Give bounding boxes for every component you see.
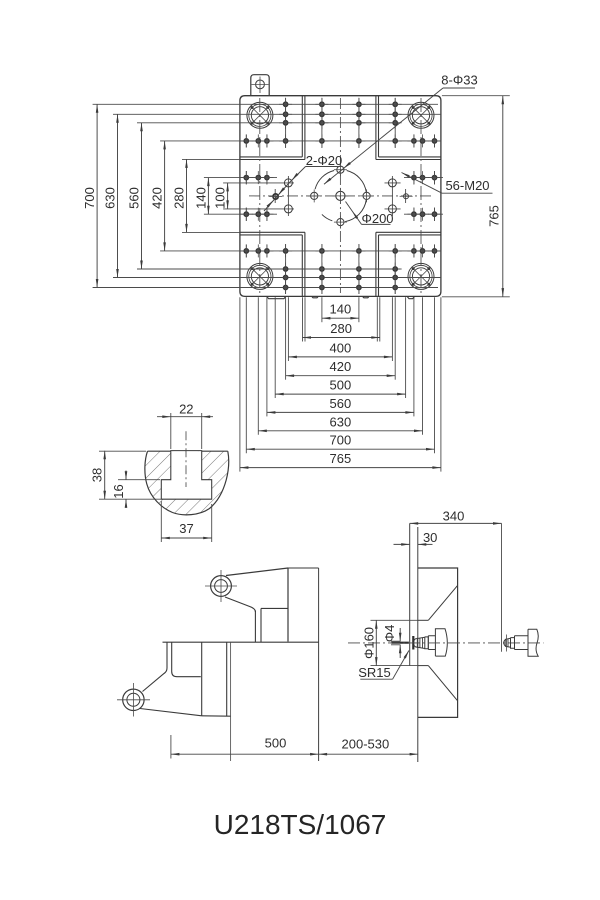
- svg-text:280: 280: [171, 187, 186, 209]
- dim 700 vertical: [96, 104, 98, 287]
- dim 500: [275, 393, 405, 395]
- dim 140: [322, 317, 359, 319]
- dim phi160: [371, 619, 418, 621]
- column lines: [245, 135, 247, 148]
- svg-text:2-Φ20: 2-Φ20: [306, 153, 342, 168]
- svg-text:340: 340: [443, 508, 465, 523]
- column centerline G-left: [259, 98, 261, 293]
- svg-text:280: 280: [330, 321, 352, 336]
- dim 420: [286, 375, 396, 377]
- side view centerline: [348, 642, 544, 644]
- dim 16: [118, 479, 160, 481]
- svg-text:30: 30: [423, 530, 437, 545]
- corner block top-right: [379, 156, 441, 158]
- bottom edge tabs: [267, 296, 286, 298]
- svg-text:765: 765: [487, 205, 502, 227]
- svg-text:56-M20: 56-M20: [445, 178, 489, 193]
- dim 560: [267, 411, 414, 413]
- svg-text:U218TS/1067: U218TS/1067: [214, 809, 387, 840]
- dim 630: [258, 430, 422, 432]
- svg-text:Φ200: Φ200: [361, 211, 393, 226]
- corner block bottom-left: [240, 234, 302, 236]
- dim 420 vertical: [164, 141, 166, 251]
- dim 38: [99, 450, 146, 452]
- dim 200-530: [319, 753, 419, 755]
- tie-bar hole bottom-left: [247, 263, 273, 289]
- horizontal centerline: [249, 195, 432, 197]
- dim 630 vertical: [117, 114, 119, 277]
- dim 765 right: [442, 95, 510, 97]
- dim 560 vertical: [141, 123, 143, 269]
- dim 140 vertical: [207, 178, 209, 215]
- svg-text:630: 630: [330, 414, 352, 429]
- svg-text:Φ160: Φ160: [362, 627, 377, 659]
- dim 700: [246, 448, 434, 450]
- svg-text:37: 37: [179, 521, 193, 536]
- dim 500: [170, 735, 172, 759]
- svg-text:765: 765: [330, 451, 352, 466]
- center hole: [336, 191, 345, 200]
- upper bracket: [211, 576, 232, 597]
- phi33 holes on col C rows A: [284, 179, 292, 187]
- phi200 bolt circle: [345, 200, 366, 222]
- phi200 circle holes (4x phi33): [311, 192, 318, 199]
- dim 30: [394, 543, 410, 545]
- side view: mold-face reference line: [417, 527, 419, 762]
- dim 37: [160, 501, 162, 542]
- corner block top-left: [240, 156, 302, 158]
- retracted nozzle (right): [504, 638, 511, 647]
- side view platen rectangle: [418, 568, 458, 717]
- svg-text:630: 630: [102, 187, 117, 209]
- svg-text:420: 420: [330, 359, 352, 374]
- svg-text:700: 700: [330, 433, 352, 448]
- dim 400: [288, 356, 392, 358]
- svg-text:500: 500: [330, 378, 352, 393]
- lower bracket: [123, 689, 144, 710]
- 56 M20 tapped holes: [283, 102, 287, 106]
- svg-text:500: 500: [265, 736, 287, 751]
- ghost line movable platen: [318, 568, 320, 761]
- platen outline (front view, rounded square): [240, 96, 441, 297]
- svg-text:38: 38: [90, 468, 105, 482]
- dim 340: [501, 523, 503, 651]
- locating cone bore: [418, 619, 429, 621]
- bottom dimension extension lines: [321, 297, 323, 322]
- tie-bar hole top-right: [408, 102, 434, 128]
- svg-text:400: 400: [330, 340, 352, 355]
- svg-text:560: 560: [330, 396, 352, 411]
- dim 100 vertical: [227, 183, 229, 209]
- dim 280 vertical: [186, 159, 188, 232]
- T-slot centerline: [185, 431, 187, 487]
- dim phi4: [391, 640, 401, 642]
- dim 765: [240, 467, 441, 469]
- top lifting tab with hole: [251, 75, 269, 96]
- phi20 dowel holes: [273, 194, 278, 199]
- tie-bar hole top-left: [247, 102, 273, 128]
- tie-bar hole bottom-right: [408, 263, 434, 289]
- row lines: [93, 103, 438, 105]
- svg-text:100: 100: [213, 187, 228, 209]
- nozzle assembly: [413, 637, 425, 648]
- dim 22: [170, 413, 172, 449]
- nozzle tip cross: [391, 642, 409, 644]
- dim 280: [303, 337, 380, 339]
- row C extension lines (block edges): [182, 158, 240, 160]
- svg-text:140: 140: [330, 302, 352, 317]
- svg-text:8-Φ33: 8-Φ33: [441, 73, 477, 88]
- svg-text:140: 140: [193, 187, 208, 209]
- locating ring plate line: [409, 523, 411, 666]
- column centerline G-right: [420, 98, 422, 293]
- svg-text:420: 420: [150, 187, 165, 209]
- svg-text:700: 700: [82, 187, 97, 209]
- corner block bottom-right: [379, 234, 441, 236]
- vertical centerline: [339, 98, 341, 293]
- svg-text:16: 16: [111, 484, 126, 498]
- svg-text:SR15: SR15: [358, 665, 391, 680]
- svg-text:Φ4: Φ4: [382, 625, 397, 643]
- svg-text:560: 560: [126, 187, 141, 209]
- svg-text:22: 22: [179, 402, 193, 417]
- svg-text:200-530: 200-530: [342, 737, 390, 752]
